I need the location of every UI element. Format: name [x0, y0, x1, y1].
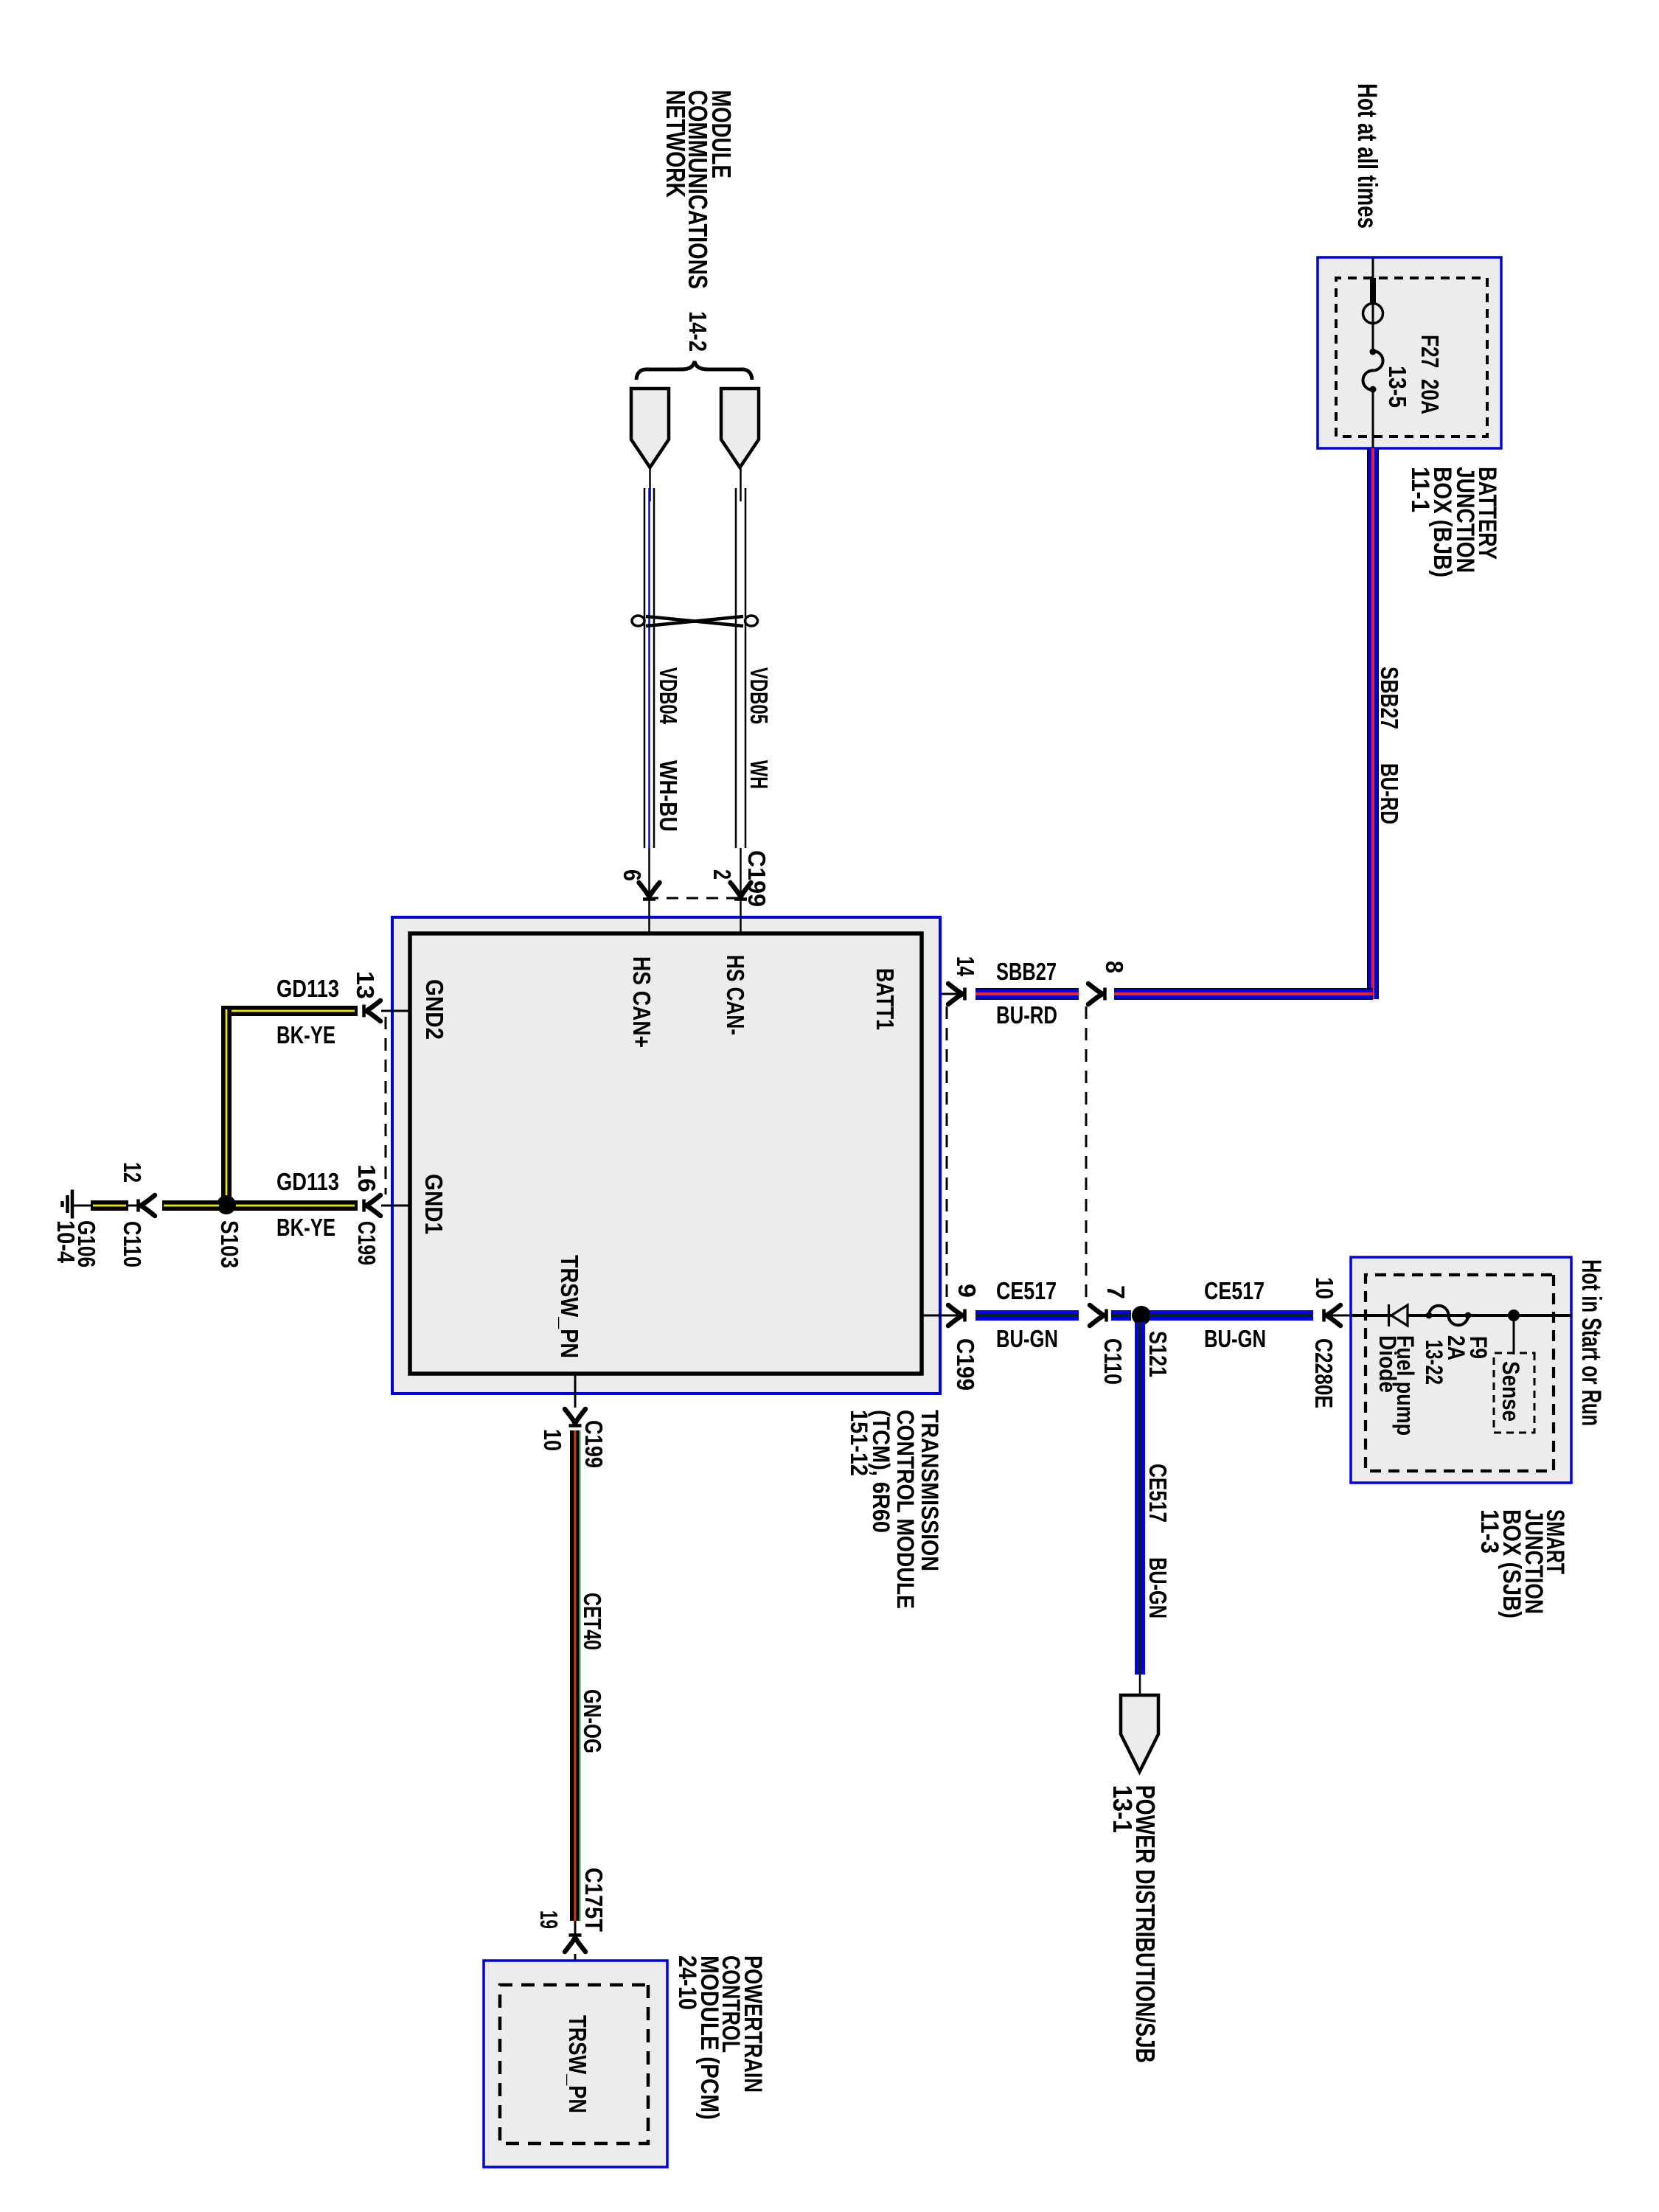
svg-text:HS CAN-: HS CAN-: [722, 955, 749, 1035]
splice S103: [217, 1195, 236, 1214]
wire SBB27 BU-RD horizontal run from BJB: [1367, 448, 1379, 999]
wire S103 to connector C110: [162, 1200, 220, 1211]
svg-text:BU-GN: BU-GN: [1144, 1557, 1172, 1618]
svg-text:WH: WH: [745, 760, 773, 789]
svg-text:SBB27: SBB27: [996, 958, 1057, 985]
pin 6 arrow: [639, 883, 660, 900]
off-page connector (POWER DISTRIBUTION/SJB): [1121, 1695, 1158, 1772]
svg-text:C199: C199: [353, 1221, 380, 1265]
svg-text:WH-BU: WH-BU: [655, 760, 682, 832]
svg-text:8: 8: [1101, 961, 1128, 973]
connector C199 dashed boundary (pins 14/9): [946, 1006, 948, 1304]
pin 14 lead into TCM: [920, 993, 963, 995]
svg-text:13-22: 13-22: [1421, 1340, 1447, 1385]
lead into PCM: [574, 1921, 577, 1937]
svg-text:13-1: 13-1: [1107, 1785, 1138, 1833]
svg-text:HS CAN+: HS CAN+: [628, 956, 655, 1048]
svg-text:BU-GN: BU-GN: [996, 1325, 1058, 1352]
pin 7 arrow: [1090, 1305, 1107, 1326]
svg-text:GN-OG: GN-OG: [579, 1689, 606, 1753]
pin 19 arrow: [565, 1935, 585, 1952]
svg-text:CE517: CE517: [1204, 1277, 1265, 1304]
svg-text:Hot at all times: Hot at all times: [1352, 83, 1382, 229]
svg-text:11-3: 11-3: [1475, 1509, 1503, 1554]
lead into SJB: [1326, 1315, 1352, 1317]
svg-text:GND1: GND1: [420, 1174, 448, 1234]
wire C110 to G106: [73, 1205, 140, 1207]
svg-text:C199: C199: [580, 1420, 608, 1468]
smart junction box SJB outline: [1351, 1257, 1571, 1483]
wire CET40 GN-OG: [570, 1430, 580, 1921]
wire GD113 BK-YE from pin 16: [232, 1200, 358, 1211]
svg-text:2: 2: [709, 869, 736, 880]
svg-text:BK-YE: BK-YE: [276, 1021, 335, 1048]
svg-text:C199: C199: [743, 850, 771, 907]
wire VDB04 lead to pin 6: [648, 848, 650, 933]
svg-text:14: 14: [952, 956, 979, 976]
pin 10 lead (TCM TRSW_PN): [574, 1374, 577, 1408]
fuse F9 element: [1429, 1306, 1468, 1326]
svg-text:VDB04: VDB04: [655, 667, 682, 724]
off-page connector (HS CAN-): [721, 389, 759, 467]
svg-text:7: 7: [1102, 1285, 1130, 1299]
pin 2 arrow: [731, 883, 751, 900]
svg-text:12: 12: [119, 1162, 146, 1183]
PCM dashed inner box: [500, 1985, 648, 2143]
svg-text:19: 19: [535, 1910, 563, 1929]
wire GD113 BK-YE from pin 13: [221, 1006, 358, 1016]
svg-text:GD113: GD113: [276, 1168, 339, 1195]
svg-text:BU-GN: BU-GN: [1204, 1325, 1266, 1352]
svg-text:BU-RD: BU-RD: [1376, 763, 1403, 824]
fuse F27 circle terminal: [1363, 304, 1383, 324]
pin 9 lead: [920, 1315, 963, 1317]
svg-text:S121: S121: [1144, 1331, 1172, 1377]
wire VDB05 WH twisted pair lines: [745, 488, 747, 848]
connector C199 dashed boundary (CAN pins): [653, 897, 738, 900]
wire VDB04 WH-BU lead from connector: [649, 467, 651, 501]
off-page connector (HS CAN+): [631, 389, 669, 467]
svg-text:CE517: CE517: [996, 1277, 1057, 1304]
svg-text:BK-YE: BK-YE: [276, 1214, 335, 1241]
svg-text:14-2: 14-2: [684, 311, 712, 352]
pin 10 arrow (SJB): [1324, 1305, 1341, 1326]
connector C110 dashed boundary (pins 8/7): [1085, 1006, 1088, 1304]
svg-text:6: 6: [619, 869, 646, 881]
wire SBB27 segment pin8 to pin14: [975, 988, 1079, 1000]
svg-text:F27 20A: F27 20A: [1416, 335, 1444, 414]
svg-text:C199: C199: [952, 1338, 979, 1391]
wire VDB05 WH lead from connector: [740, 467, 742, 501]
ground G106: [63, 1190, 73, 1219]
svg-text:Diode: Diode: [1374, 1335, 1401, 1393]
pin 8 arrow: [1088, 984, 1105, 1004]
svg-text:151-12: 151-12: [846, 1410, 872, 1476]
svg-text:9: 9: [953, 1284, 981, 1298]
svg-text:NETWORK: NETWORK: [661, 90, 691, 198]
pin 14 arrow: [948, 984, 965, 1004]
svg-text:GD113: GD113: [276, 975, 339, 1002]
brace for CAN bus pair: [636, 361, 752, 380]
wire CE517 BU-GN S121 to SJB: [1150, 1310, 1313, 1321]
wire VDB05 lead to pin 2: [740, 848, 742, 933]
svg-text:13: 13: [352, 971, 379, 999]
wire to Sense box: [1513, 1315, 1515, 1354]
connector C199 dashed boundary (pins 13/16): [385, 1017, 387, 1194]
junction dot (sense tap): [1508, 1310, 1520, 1321]
pin 9 arrow: [948, 1305, 965, 1326]
wire CE517 BU-GN pin9 to pin7: [975, 1310, 1079, 1321]
splice S121: [1132, 1306, 1151, 1325]
wire VDB04 WH-BU twisted pair lines: [653, 488, 655, 848]
svg-text:C175T: C175T: [580, 1868, 608, 1932]
svg-text:CE517: CE517: [1144, 1464, 1172, 1523]
pin 10 arrow (TCM): [565, 1409, 585, 1426]
wire stub pin7 to S121: [1111, 1310, 1131, 1321]
svg-text:16: 16: [353, 1164, 380, 1192]
pin 13 arrow: [364, 1001, 381, 1021]
fuse F27 element: [1363, 351, 1383, 390]
svg-text:S103: S103: [216, 1220, 243, 1268]
svg-text:C2280E: C2280E: [1310, 1338, 1338, 1408]
svg-text:Hot in Start or Run: Hot in Start or Run: [1576, 1259, 1607, 1426]
wire inside SJB: [1351, 1314, 1571, 1317]
svg-text:Sense: Sense: [1498, 1361, 1524, 1422]
SJB dashed inner box: [1366, 1275, 1554, 1471]
lead to off-page connector: [1139, 1674, 1141, 1695]
pin 12 arrow: [139, 1195, 156, 1216]
svg-text:10: 10: [539, 1429, 566, 1451]
svg-text:10: 10: [1311, 1277, 1338, 1299]
svg-text:C110: C110: [1099, 1338, 1127, 1385]
pin 16 lead: [381, 1205, 410, 1207]
twisted pair twist symbol: [632, 616, 758, 626]
svg-text:13-5: 13-5: [1384, 366, 1411, 408]
Sense dashed box: [1494, 1353, 1534, 1433]
svg-text:10-4: 10-4: [52, 1220, 80, 1264]
wire: feed into fuse F27: [1372, 258, 1374, 352]
diode (fuel pump diode): [1391, 1305, 1408, 1326]
svg-text:BATT1: BATT1: [872, 968, 899, 1030]
pin 16 arrow: [364, 1195, 381, 1216]
battery junction box BJB outline: [1318, 257, 1501, 448]
svg-text:BU-RD: BU-RD: [996, 1001, 1057, 1029]
svg-text:11-1: 11-1: [1406, 467, 1434, 512]
svg-text:24-10: 24-10: [673, 1955, 701, 2010]
TCM inner black box: [410, 933, 922, 1374]
svg-text:C110: C110: [119, 1221, 146, 1267]
svg-text:VDB05: VDB05: [745, 667, 773, 724]
svg-text:GND2: GND2: [421, 979, 448, 1040]
svg-text:SBB27: SBB27: [1376, 667, 1403, 729]
wire CE517 BU-GN S121 to power distribution: [1135, 1322, 1145, 1674]
wire SBB27 BU-RD vertical run to TCM pin 14: [1114, 988, 1373, 1000]
wire: fuse to box edge: [1372, 389, 1374, 448]
pin 13 lead: [381, 1010, 410, 1012]
BJB dashed inner box: [1336, 278, 1487, 437]
svg-text:CONTROL MODULE: CONTROL MODULE: [892, 1410, 919, 1609]
transmission control module TCM box: [392, 917, 940, 1394]
svg-text:TRANSMISSION: TRANSMISSION: [917, 1410, 943, 1571]
svg-text:CET40: CET40: [579, 1593, 606, 1650]
svg-text:TRSW_PN: TRSW_PN: [556, 1255, 583, 1358]
svg-text:TRSW_PN: TRSW_PN: [564, 2015, 591, 2113]
powertrain control module PCM box: [484, 1961, 667, 2167]
